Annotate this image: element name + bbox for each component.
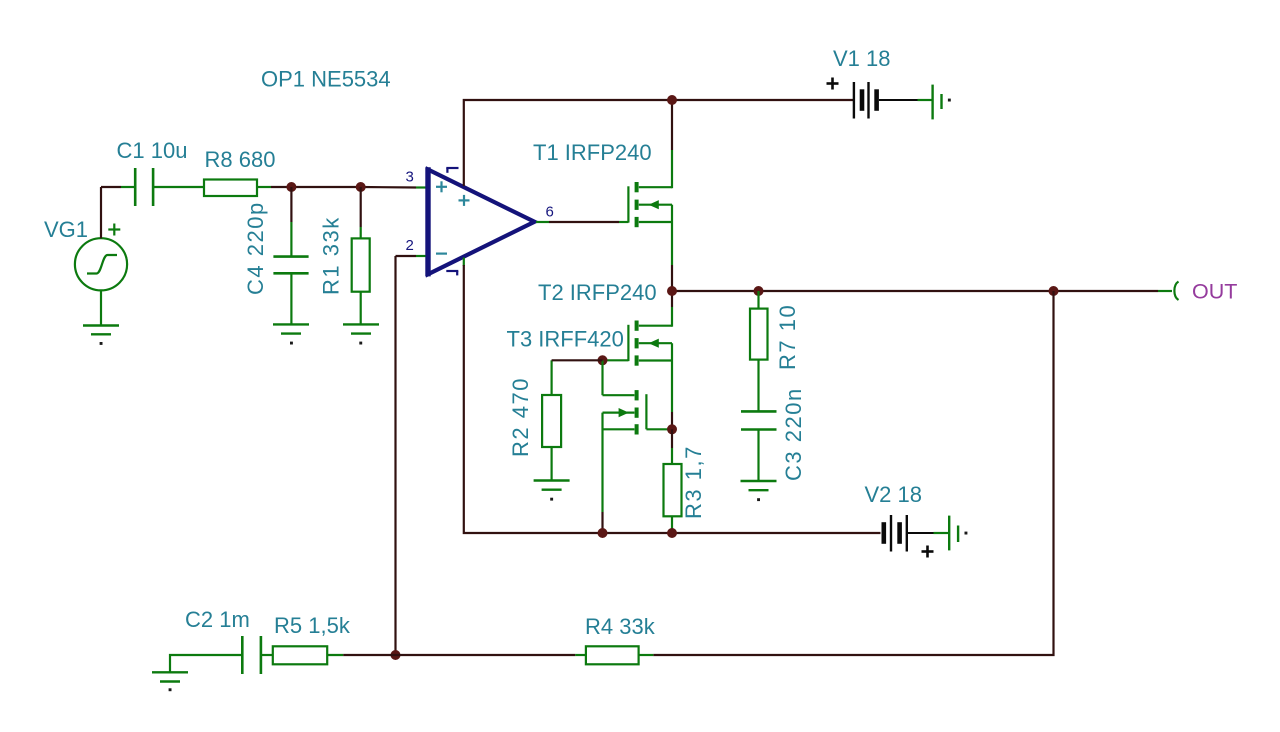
capacitor C2 — [242, 636, 261, 674]
svg-text:R8 680: R8 680 — [205, 147, 276, 172]
wire C1 to R8 — [154, 186, 204, 188]
wire feedback vertical riser — [394, 256, 396, 655]
wire op-amp pin 2 from feedback node — [396, 255, 426, 257]
wire R7 stem from OUT rail — [757, 291, 759, 309]
wire node B to op-amp pin 3 — [361, 186, 426, 189]
resistor R2 — [542, 395, 561, 447]
wire C2 left to ground — [170, 655, 241, 672]
transistor Q2 T2 IRFP240 — [628, 321, 672, 366]
svg-text:R5 1,5k: R5 1,5k — [274, 613, 351, 638]
OUT terminal symbol — [1174, 282, 1178, 301]
wire V1 to ground — [879, 99, 932, 101]
wire T1 drain to top rail — [671, 100, 673, 188]
wire T3 source down to bottom rail — [601, 413, 603, 533]
wire R8 to node A — [257, 186, 291, 188]
wire node C to R3 — [671, 429, 673, 464]
node top rail junction dot — [667, 95, 677, 105]
plus sign of VG1 — [108, 224, 120, 236]
wire node B down to R1 — [360, 187, 362, 238]
svg-text:C1 10u: C1 10u — [117, 138, 188, 163]
op-amp offset pin stub bottom — [446, 271, 458, 275]
capacitor C3 — [741, 411, 777, 429]
op-amp offset pin stub top — [446, 168, 458, 173]
node bottom feedback junction dot — [391, 650, 401, 660]
wire node A down to C4 — [290, 187, 292, 256]
svg-text:T3 IRFF420: T3 IRFF420 — [507, 327, 624, 352]
wire op-amp V- supply to bottom rail — [463, 258, 465, 267]
wire node A to node B — [291, 186, 360, 188]
op-amp U1 OP1 NE5534 — [428, 167, 535, 276]
ground below VG1 — [83, 326, 119, 345]
wire T2 source down to node C — [671, 343, 673, 429]
svg-text:R2 470: R2 470 — [508, 377, 533, 457]
svg-text:VG1: VG1 — [44, 217, 88, 242]
wire R1 to ground — [360, 292, 362, 325]
resistor R8 — [204, 180, 257, 197]
wire T2 drain to OUT node — [671, 291, 673, 327]
node bottom rail junction dot at R3 — [667, 528, 677, 538]
svg-text:T1 IRFP240: T1 IRFP240 — [533, 140, 652, 165]
svg-text:OP1 NE5534: OP1 NE5534 — [261, 67, 391, 92]
wire R4 left to feedback node — [396, 654, 586, 656]
svg-text:3: 3 — [406, 169, 414, 186]
op-amp plus input marker — [436, 181, 447, 192]
wire op-amp output pin 6 to T1 gate — [536, 221, 628, 223]
wire R2 top to node D — [552, 360, 603, 395]
node B junction dot — [356, 182, 366, 192]
ground at C2 — [152, 672, 188, 691]
svg-text:6: 6 — [546, 204, 554, 221]
wire C4 to ground — [290, 273, 292, 324]
wire feedback from OUT down and left — [653, 291, 1053, 655]
wire T2 gate from node D — [603, 359, 629, 361]
op-amp minus input marker — [436, 253, 447, 255]
capacitor C1 — [135, 168, 153, 206]
capacitor C4 — [273, 257, 308, 274]
wire C3 to ground — [757, 430, 759, 482]
node bottom rail junction dot at T3 source — [598, 528, 608, 538]
ground below C4 — [273, 324, 309, 344]
wire R5 right to feedback node — [327, 654, 395, 656]
svg-text:V1 18: V1 18 — [833, 46, 891, 71]
resistor R5 — [273, 646, 327, 664]
wire R3 to bottom rail — [671, 516, 673, 529]
wire V2 to ground — [908, 532, 948, 534]
ground at V1 (rotated) — [933, 85, 951, 120]
wire R2 to ground — [550, 447, 552, 481]
svg-text:OUT: OUT — [1192, 280, 1237, 304]
svg-text:T2 IRFP240: T2 IRFP240 — [538, 280, 657, 305]
wire C2 to R5 — [262, 654, 273, 656]
node A junction dot — [286, 182, 296, 192]
battery V2 — [884, 515, 907, 552]
node OUT junction dot at T1/T2 — [667, 286, 677, 296]
svg-text:R4 33k: R4 33k — [585, 614, 656, 639]
ground below R1 — [343, 324, 379, 344]
op-amp V+ supply marker — [459, 195, 470, 206]
voltage source VG1 — [75, 238, 127, 290]
ground at V2 (rotated) — [949, 516, 967, 551]
svg-text:C3 220n: C3 220n — [781, 387, 806, 481]
node OUT junction dot at R7 — [754, 286, 764, 296]
svg-text:2: 2 — [406, 237, 414, 254]
transistor Q3 T3 IRFF420 (mirrored) — [603, 390, 647, 434]
wire VG1 top lead — [100, 187, 102, 238]
wire T3 drain to node D — [601, 360, 603, 395]
resistor R7 — [750, 309, 768, 360]
wire T3 gate to node C — [646, 428, 672, 430]
resistor R4 — [586, 646, 639, 664]
wire R4 right lead — [639, 654, 654, 656]
svg-text:R3 1,7: R3 1,7 — [681, 445, 706, 519]
node C junction dot — [667, 424, 677, 434]
resistor R3 — [664, 464, 682, 516]
wire R7 to C3 — [757, 360, 759, 412]
battery V1 — [854, 82, 877, 119]
wire VG1 to C1 — [101, 186, 134, 188]
wire T1 source to OUT node — [671, 205, 673, 291]
ground below C3 — [741, 481, 777, 501]
node OUT junction dot at feedback — [1049, 286, 1059, 296]
svg-text:C4 220p: C4 220p — [243, 201, 268, 295]
svg-text:R1 33k: R1 33k — [319, 216, 344, 295]
svg-text:R7 10: R7 10 — [775, 304, 800, 370]
wire OUT rail — [672, 290, 1172, 292]
wire op-amp V+ supply to top rail — [464, 100, 853, 186]
svg-text:V2 18: V2 18 — [865, 482, 923, 507]
wire VG1 bottom lead — [100, 290, 102, 325]
ground below R2 — [534, 481, 570, 501]
transistor Q1 T1 IRFP240 — [628, 182, 672, 227]
plus sign of V2 — [922, 546, 934, 558]
svg-text:C2 1m: C2 1m — [185, 607, 250, 632]
resistor R1 — [352, 238, 370, 291]
plus sign of V1 — [827, 78, 839, 90]
node D junction dot — [598, 355, 608, 365]
